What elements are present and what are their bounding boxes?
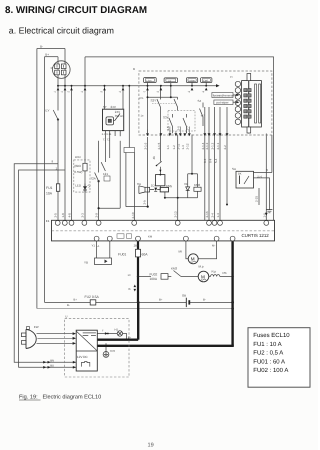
svg-text:1 km: 1 km [146, 80, 151, 83]
svg-text:FU1: FU1 [46, 186, 53, 190]
svg-text:(8kΩ: (8kΩ [74, 164, 81, 168]
svg-text:60A: 60A [142, 253, 149, 257]
svg-text:LP: LP [168, 80, 171, 83]
svg-text:2-1.6: 2-1.6 [144, 142, 148, 149]
svg-text:100A: 100A [150, 277, 158, 281]
svg-text:2-10: 2-10 [131, 212, 135, 218]
svg-text:KM3: KM3 [171, 267, 178, 271]
svg-text:1A: 1A [96, 245, 99, 248]
svg-text:B+: B+ [159, 297, 163, 301]
svg-text:FU1 : 10 A: FU1 : 10 A [253, 341, 281, 348]
svg-text:B: B [129, 287, 131, 291]
svg-text:T1 T2: T1 T2 [103, 138, 111, 142]
svg-text:forward/reverse: forward/reverse [213, 93, 234, 97]
svg-text:1-8: 1-8 [61, 213, 65, 218]
svg-text:6-9 9-11: 6-9 9-11 [102, 133, 112, 136]
svg-text:2-2: 2-2 [223, 145, 227, 150]
svg-text:B-: B- [203, 297, 206, 301]
svg-text:2-9: 2-9 [95, 213, 99, 218]
svg-text:IC1: IC1 [140, 97, 145, 100]
svg-text:Fuses ECL10: Fuses ECL10 [253, 332, 290, 339]
svg-text:B-: B- [40, 45, 43, 49]
svg-text:Electric diagram ECL10: Electric diagram ECL10 [43, 394, 102, 401]
svg-text:M.p: M.p [199, 265, 204, 269]
svg-text:R.p: R.p [212, 270, 217, 274]
svg-text:Y1: Y1 [92, 244, 96, 248]
svg-text:1-3: 1-3 [181, 145, 185, 150]
svg-text:TP6: TP6 [110, 349, 116, 353]
svg-text:S4: S4 [198, 99, 202, 103]
svg-text:2-15: 2-15 [255, 196, 259, 202]
svg-text:FU01: FU01 [118, 253, 126, 257]
svg-text:1-4: 1-4 [216, 213, 220, 218]
svg-text:Mt: Mt [179, 250, 182, 254]
svg-text:1.6km: 1.6km [188, 80, 195, 83]
svg-text:1-7: 1-7 [185, 126, 189, 131]
svg-text:5-4: 5-4 [214, 158, 218, 163]
svg-text:4b: 4b [152, 156, 156, 160]
svg-text:2-1.1: 2-1.1 [216, 142, 220, 149]
svg-text:2-12: 2-12 [185, 143, 189, 149]
svg-text:GB: GB [182, 293, 186, 297]
svg-text:FU01 : 60 A: FU01 : 60 A [253, 358, 285, 365]
svg-text:U: U [65, 315, 67, 319]
svg-text:EM7: EM7 [203, 80, 209, 83]
svg-text:YB: YB [84, 261, 88, 265]
svg-text:E1: E1 [46, 219, 50, 223]
svg-text:S3Y: S3Y [163, 116, 169, 120]
svg-text:SA: SA [232, 167, 236, 171]
svg-text:BN: BN [50, 358, 54, 362]
svg-text:B+: B+ [45, 52, 49, 56]
svg-text:8. WIRING/ CIRCUIT DIAGRAM: 8. WIRING/ CIRCUIT DIAGRAM [5, 5, 147, 16]
svg-text:P: P [51, 66, 53, 70]
svg-text:HA: HA [137, 182, 141, 186]
svg-text:2-16: 2-16 [205, 211, 209, 217]
svg-text:5Y: 5Y [103, 105, 107, 109]
svg-text:2-b: 2-b [142, 200, 146, 205]
svg-text:Fig. 19:: Fig. 19: [19, 394, 38, 401]
svg-text:2-1.2: 2-1.2 [211, 142, 215, 149]
svg-text:2-13: 2-13 [174, 211, 178, 217]
svg-text:8-4: 8-4 [203, 158, 207, 163]
svg-text:FU2 : 0,5 A: FU2 : 0,5 A [253, 350, 283, 357]
svg-text:B: B [133, 67, 135, 71]
svg-text:NO: NO [120, 115, 124, 118]
svg-text:4-7: 4-7 [201, 115, 205, 118]
svg-text:4-8: 4-8 [68, 213, 72, 218]
svg-text:12V DC: 12V DC [77, 355, 89, 359]
svg-text:6-4: 6-4 [209, 158, 213, 163]
svg-text:CURTIS 1212: CURTIS 1212 [242, 233, 270, 238]
svg-text:10A: 10A [46, 192, 53, 196]
svg-text:LED: LED [75, 155, 82, 159]
svg-text:FU02 : 100 A: FU02 : 100 A [253, 367, 288, 374]
svg-text:2-6: 2-6 [176, 126, 180, 131]
svg-text:3W: 3W [115, 114, 120, 118]
svg-text:24V: 24V [111, 105, 116, 109]
svg-text:B-: B- [67, 303, 70, 307]
svg-text:19: 19 [148, 443, 154, 449]
svg-text:1-5: 1-5 [166, 126, 170, 131]
svg-text:KM3: KM3 [194, 183, 201, 187]
svg-text:H1: H1 [115, 328, 119, 332]
svg-text:2-3: 2-3 [80, 213, 84, 218]
svg-text:H: H [230, 75, 232, 79]
svg-text:2-11: 2-11 [176, 143, 180, 149]
svg-text:BK: BK [238, 173, 242, 176]
svg-text:FU2 0.5A: FU2 0.5A [85, 295, 100, 299]
svg-text:PB: PB [223, 271, 227, 275]
svg-text:2-4: 2-4 [211, 213, 215, 218]
svg-text:M-: M- [212, 244, 215, 248]
svg-text:2B+: 2B+ [134, 244, 139, 248]
svg-text:1-6: 1-6 [262, 213, 266, 218]
svg-text:1-2: 1-2 [172, 145, 176, 150]
svg-text:EY: EY [46, 109, 50, 113]
svg-text:0.5W): 0.5W) [74, 170, 82, 174]
svg-text:pot wiper: pot wiper [217, 101, 229, 105]
svg-text:2-1.5: 2-1.5 [157, 142, 161, 149]
svg-text:EW: EW [34, 325, 39, 329]
svg-text:1-1: 1-1 [166, 145, 170, 150]
svg-text:a. Electrical circuit diagram: a. Electrical circuit diagram [9, 26, 114, 36]
svg-text:BU: BU [50, 363, 54, 367]
svg-text:121: 121 [103, 172, 108, 176]
svg-text:T2A: T2A [90, 177, 96, 181]
svg-text:2-5: 2-5 [54, 213, 58, 218]
svg-text:KM: KM [148, 235, 153, 239]
svg-text:S2Y: S2Y [151, 99, 157, 103]
svg-text:B+: B+ [128, 336, 132, 340]
svg-text:LED: LED [75, 184, 82, 188]
svg-text:KMy: KMy [166, 184, 173, 188]
svg-text:2-1.3: 2-1.3 [205, 142, 209, 149]
svg-text:B+: B+ [74, 297, 78, 301]
svg-text:J1-6: J1-6 [257, 176, 263, 179]
